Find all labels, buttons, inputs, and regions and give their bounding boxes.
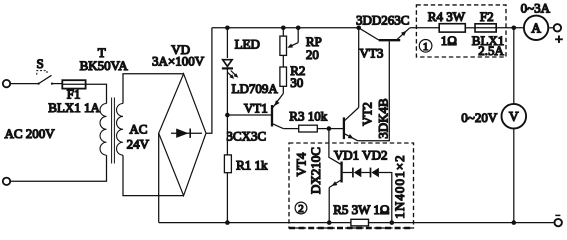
svg-text:20: 20: [306, 47, 319, 62]
wire secondary bottom to bridge: [123, 155, 184, 195]
wire VT4 base to VD1: [343, 172, 353, 174]
label circled 1: [419, 40, 432, 54]
wire VT3 emitter to R4: [410, 27, 439, 29]
label AC 24V: [127, 122, 150, 152]
svg-text:VT3: VT3: [360, 45, 384, 60]
wire rail to RP: [282, 28, 284, 36]
wire ammeter to plus terminal: [548, 27, 553, 29]
wire F2 to ammeter: [496, 27, 524, 29]
svg-text:3DK4B: 3DK4B: [375, 98, 390, 139]
resistor R5: [351, 219, 369, 226]
resistor R1: [224, 155, 231, 173]
RP wiper arm: [287, 28, 298, 48]
wire VD1 to VD2: [361, 172, 370, 174]
svg-text:AC 200V: AC 200V: [5, 126, 56, 141]
svg-text:S: S: [37, 56, 44, 71]
wire VD2 to bottom rail: [379, 173, 392, 223]
diode VD1: [353, 168, 361, 178]
wire voltmeter to bottom rail: [513, 129, 515, 223]
svg-text:R3 10k: R3 10k: [289, 109, 327, 124]
svg-text:R5 3W 1Ω: R5 3W 1Ω: [333, 202, 389, 217]
resistor R4: [439, 24, 465, 32]
label minus: [555, 214, 560, 216]
terminal: AC input bottom: [3, 178, 10, 185]
bridge rectifier VD diamond: [159, 74, 206, 196]
wire voltmeter top: [513, 28, 515, 104]
ammeter A: [524, 16, 548, 40]
svg-text:VT1: VT1: [244, 101, 268, 116]
svg-text:1Ω: 1Ω: [441, 33, 457, 48]
svg-text:F2: F2: [480, 9, 494, 24]
wire R3 to node: [317, 128, 329, 130]
transformer T primary winding: [100, 104, 106, 156]
transistor VT2: [344, 108, 359, 141]
wire R4 to F2: [465, 27, 475, 29]
label circled 2: [295, 202, 307, 215]
wire switch to fuse F1: [52, 83, 62, 85]
dashed box 2 bottom bold edge: [289, 227, 414, 230]
terminal: output plus: [554, 24, 561, 31]
node: VT1 base junction: [225, 113, 230, 118]
LED: [222, 60, 238, 79]
node: VT2 base / VT4 collector junction: [327, 126, 332, 131]
wire R1 to bottom rail: [226, 173, 228, 223]
node: VT4 emitter on bottom rail: [327, 220, 332, 225]
svg-text:VD1 VD2: VD1 VD2: [334, 147, 388, 162]
svg-text:3A×100V: 3A×100V: [152, 53, 205, 68]
svg-text:30: 30: [290, 75, 303, 90]
svg-text:DX210C: DX210C: [308, 147, 323, 194]
wire VT2 emitter to VT3 base: [358, 41, 390, 140]
wire top rail: [212, 27, 359, 29]
voltmeter V: [502, 104, 527, 129]
dashed box 2: [289, 143, 414, 228]
wire bridge minus output to bottom rail: [158, 133, 160, 222]
resistor R2: [280, 67, 287, 86]
wire VT2 collector to top rail node: [358, 28, 360, 108]
svg-text:2: 2: [298, 203, 304, 215]
transistor VT1: [272, 94, 283, 129]
fuse F1: [62, 80, 85, 88]
wire node to VT4 collector: [329, 129, 341, 165]
svg-text:LED: LED: [235, 37, 260, 52]
node: voltmeter on bottom rail: [512, 220, 517, 225]
transformer T secondary winding: [117, 104, 123, 156]
wire rail to LED: [226, 28, 228, 58]
transistor VT1 base wire: [227, 114, 271, 116]
wire LED to base node: [226, 68, 228, 115]
svg-text:R1 1k: R1 1k: [236, 158, 268, 173]
svg-text:BK50VA: BK50VA: [80, 58, 129, 73]
svg-text:VT4: VT4: [293, 152, 308, 176]
svg-text:24V: 24V: [127, 137, 150, 152]
wire R2 to VT1 emitter: [282, 86, 284, 93]
transistor VT3: [359, 28, 410, 40]
svg-text:0~20V: 0~20V: [461, 110, 498, 125]
svg-text:2.5A: 2.5A: [478, 43, 504, 58]
terminal: AC input top: [3, 80, 10, 87]
svg-text:AC: AC: [129, 122, 147, 137]
terminal: output minus: [555, 219, 562, 226]
svg-text:1: 1: [423, 41, 429, 53]
node: VD2 on bottom rail: [390, 220, 395, 225]
svg-text:R4 3W: R4 3W: [428, 9, 466, 24]
potentiometer RP: [280, 36, 287, 55]
node: RP top on rail: [281, 26, 286, 31]
svg-text:V: V: [509, 109, 519, 124]
dashed box 1: [416, 5, 506, 57]
wire bridge plus output to top rail: [206, 28, 212, 133]
svg-text:3CX3C: 3CX3C: [226, 129, 266, 144]
svg-text:+: +: [555, 33, 563, 48]
wire node to VT2 base: [329, 128, 343, 130]
transistor VT4: [329, 162, 341, 188]
wire node to R1: [226, 115, 228, 155]
node: LED branch on top rail: [225, 26, 230, 31]
node: VT3 collector junction on rail: [356, 26, 361, 31]
transformer core: [112, 98, 115, 164]
node: R1 on bottom rail: [225, 220, 230, 225]
diode VD2: [371, 168, 379, 178]
svg-text:1N4001×2: 1N4001×2: [392, 154, 407, 219]
svg-text:A: A: [531, 21, 541, 36]
switch S: [37, 71, 53, 85]
svg-text:0~3A: 0~3A: [521, 1, 551, 16]
wire bottom rail: [159, 222, 555, 224]
bridge inner diode: [171, 129, 202, 138]
wire VT1 collector to R3: [283, 128, 298, 130]
wire fuse to transformer primary: [86, 84, 107, 103]
wire terminal to switch: [10, 83, 38, 85]
fuse F2: [475, 24, 496, 32]
node: voltmeter tap: [512, 26, 517, 31]
resistor R3: [299, 125, 318, 132]
wire secondary top to bridge: [123, 74, 184, 104]
svg-text:LD709A: LD709A: [232, 81, 279, 96]
wire bottom terminal to transformer primary: [10, 155, 106, 181]
svg-text:VT2: VT2: [360, 102, 375, 126]
svg-text:3DD263C: 3DD263C: [356, 12, 409, 27]
wire VT4 emitter to bottom rail: [328, 188, 330, 223]
wire RP to R2: [282, 55, 284, 67]
svg-text:BLX1 1A: BLX1 1A: [48, 100, 100, 115]
node: RP wiper on rail: [296, 26, 301, 31]
